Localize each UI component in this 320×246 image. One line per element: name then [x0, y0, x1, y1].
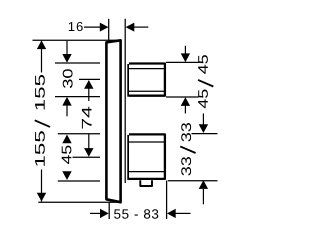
value label 45 lower: [198, 90, 208, 109]
value label 33 lower: [181, 157, 191, 176]
arrowhead 45/45 bottom: [181, 97, 190, 106]
value label 74: [82, 107, 92, 129]
dim line 33/33 lower tail: [202, 189, 204, 204]
arrowhead 155 bottom: [37, 193, 46, 202]
dim line 30 lower tail: [66, 105, 68, 116]
extension line wall plane: [108, 19, 110, 41]
knob2 chamfer top: [129, 141, 164, 143]
arrowhead 45 top: [62, 135, 71, 144]
slash 155/155: [35, 120, 50, 127]
arrowhead 45/45 top: [181, 53, 190, 62]
arrowhead 16 right: [126, 23, 135, 32]
arrowhead 155 top: [37, 40, 46, 49]
value label 16: [69, 22, 83, 31]
dim line 45/45 upper tail: [184, 46, 186, 54]
dim line 155 lower: [41, 170, 43, 202]
extension line knob2 top left: [58, 133, 100, 135]
extension line plate bottom: [38, 201, 121, 203]
extension line knob2 axis: [73, 156, 101, 158]
extension line knob1 bottom: [55, 96, 100, 98]
dimension 55-83 (bottom): [90, 181, 191, 220]
dimension 16: [69, 19, 149, 41]
dimension 45 (left): [58, 134, 100, 181]
value label 45: [62, 146, 72, 164]
wall front reference line: [124, 19, 126, 183]
arrowhead 74 top: [84, 80, 93, 89]
extension line knob1 axis: [79, 78, 100, 80]
value label 55-83: [114, 209, 158, 219]
arrowhead 30 bottom: [62, 97, 71, 106]
dim line 16 left tail: [84, 26, 101, 28]
dimension 33/33 (right): [167, 114, 218, 205]
slash 45/45: [198, 80, 213, 87]
knob2 base flange: [127, 135, 129, 180]
dim line 33/33 upper tail: [202, 114, 204, 126]
dim line 155 upper: [41, 40, 43, 72]
dimension 74: [73, 79, 101, 157]
knob1 chamfer bottom: [129, 90, 165, 92]
extension line knob2 bottom left: [58, 180, 100, 182]
extension line knob2 bottom right: [168, 180, 218, 182]
arrowhead 55-83 left: [100, 209, 109, 218]
extension line knob front: [166, 181, 168, 220]
value label 155 upper: [35, 75, 45, 110]
value label 33 upper: [181, 123, 191, 142]
value label 30: [63, 69, 73, 88]
value label 45 upper: [198, 55, 208, 74]
knob1 outline: [129, 64, 165, 96]
extension line plate top: [33, 39, 122, 41]
dim line 55-83 left tail: [90, 212, 102, 214]
arrowhead 74 bottom: [84, 148, 93, 157]
dim line 16 right tail: [133, 26, 148, 28]
slash 33/33: [180, 146, 195, 153]
dim line 74 lower tail: [88, 134, 90, 149]
extension line knob1 top right: [166, 61, 202, 63]
dim line 55-83 right tail: [175, 212, 191, 214]
dim line 74 upper tail: [88, 89, 90, 102]
extension line knob2 top right a: [167, 133, 177, 135]
dim line 30 upper tail: [66, 41, 68, 55]
arrowhead 33/33 bottom: [199, 180, 208, 189]
extension line knob2 top right b: [192, 133, 218, 135]
knob2 chamfer bottom: [129, 171, 164, 173]
dimension 155/155: [33, 40, 122, 202]
value label 155 lower: [35, 131, 45, 166]
knob2 outline: [129, 134, 165, 179]
arrowhead 33/33 top: [199, 124, 208, 133]
knob T2 (bottom handle): [128, 134, 165, 180]
knob T2 tab: [140, 180, 152, 186]
arrowhead 55-83 right: [167, 209, 176, 218]
extension line knob1 bottom right: [166, 96, 199, 98]
wall plate: [106, 40, 120, 202]
dimension 45/45 (right): [166, 46, 213, 114]
arrowhead 30 top: [62, 54, 71, 63]
dim line 45/45 lower tail: [184, 106, 186, 114]
knob1 base flange: [127, 64, 129, 97]
arrowhead 16 left: [100, 23, 109, 32]
knob T1 (top handle): [128, 64, 165, 97]
dimension 30: [55, 41, 100, 116]
extension line knob1 top: [55, 62, 100, 64]
arrowhead 45 bottom: [62, 171, 71, 180]
extension line wall plane lower: [108, 203, 110, 220]
knob1 chamfer top: [129, 68, 165, 70]
